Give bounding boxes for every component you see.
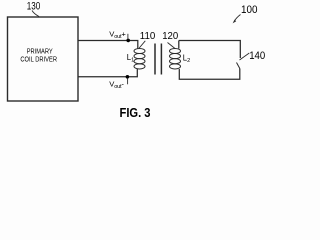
caption FIG. 3 bbox=[120, 105, 151, 120]
reference numeral 100 bbox=[241, 4, 258, 16]
svg-text:120: 120 bbox=[162, 30, 178, 42]
tick from node to Vout- label bbox=[127, 78, 129, 84]
reference numeral 110 bbox=[140, 30, 156, 42]
svg-text:100: 100 bbox=[241, 4, 258, 16]
reference numeral 130 bbox=[27, 1, 41, 13]
wire: secondary bottom with L2 bottom stub bbox=[179, 69, 240, 80]
svg-text:140: 140 bbox=[249, 50, 265, 62]
wire: L2 top stub bbox=[178, 41, 180, 49]
svg-text:FIG. 3: FIG. 3 bbox=[120, 105, 151, 120]
wire: box to node Vout+ to L1 top bbox=[78, 41, 138, 49]
switch blade 140 bbox=[237, 63, 240, 69]
reference numeral 140 bbox=[249, 50, 265, 62]
inductor L2 coil (120) bbox=[170, 48, 181, 69]
junction node Vout- bbox=[126, 75, 130, 79]
label Vout- bbox=[109, 79, 124, 90]
leader line for 120 bbox=[168, 43, 176, 49]
arrow for 100 bbox=[233, 15, 241, 24]
leader line for 140 bbox=[240, 53, 250, 60]
svg-text:COIL DRIVER: COIL DRIVER bbox=[20, 54, 57, 63]
inductor L1 coil (110) bbox=[134, 48, 145, 69]
label L1 bbox=[127, 53, 134, 64]
leader line for 110 bbox=[139, 41, 145, 48]
primary coil driver block 130 bbox=[8, 17, 79, 101]
reference numeral 120 bbox=[162, 30, 178, 42]
wire: secondary top bbox=[179, 41, 241, 59]
tick from Vout+ label to node bbox=[127, 34, 129, 40]
svg-text:130: 130 bbox=[27, 1, 41, 13]
transformer core bbox=[155, 44, 161, 75]
label L2 bbox=[183, 54, 190, 65]
svg-text:110: 110 bbox=[140, 30, 156, 42]
wire: box to node Vout- to L1 bottom bbox=[78, 69, 137, 77]
block text PRIMARY COIL DRIVER bbox=[20, 47, 57, 64]
label Vout+ bbox=[109, 30, 126, 41]
junction node Vout+ bbox=[126, 39, 130, 43]
leader line for 130 bbox=[32, 11, 39, 17]
